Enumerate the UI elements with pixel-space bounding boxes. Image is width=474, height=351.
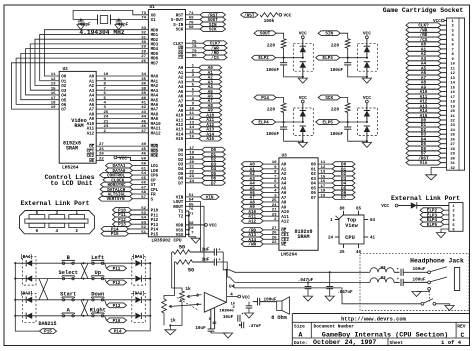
svg-text:MD6: MD6: [151, 58, 159, 62]
socket inner divider: [458, 18, 460, 170]
wire X1 net: [111, 19, 149, 21]
svg-text:SCK: SCK: [325, 96, 333, 101]
wire diode to rail: [142, 315, 150, 317]
svg-text:LH5264: LH5264: [281, 252, 298, 258]
wire MD6: [16, 58, 148, 104]
svg-text:A10: A10: [87, 123, 95, 127]
wire amp out: [225, 270, 227, 303]
svg-text:Start: Start: [60, 291, 76, 297]
svg-text:39: 39: [141, 92, 146, 96]
svg-text:61: 61: [141, 167, 146, 171]
svg-text:A5: A5: [281, 187, 287, 191]
svg-text:70: 70: [189, 21, 194, 25]
svg-text:P13: P13: [151, 224, 159, 228]
svg-text:SRAM: SRAM: [297, 234, 309, 240]
net flag CLOCK: [103, 177, 133, 182]
net flag DATALCH: [100, 187, 133, 192]
wire X0 net: [73, 10, 148, 19]
net flag SIN: [318, 31, 340, 36]
VCC: [444, 20, 446, 22]
svg-text:O1: O1: [311, 168, 317, 172]
svg-text:VSS: VSS: [176, 229, 184, 233]
net flag A3: [199, 79, 222, 84]
svg-text:54: 54: [141, 217, 146, 221]
svg-text:[DA3]: [DA3]: [20, 291, 33, 296]
wire: [276, 98, 284, 104]
wire: [276, 33, 284, 39]
svg-text:A5: A5: [89, 99, 95, 103]
svg-text:Right: Right: [90, 307, 106, 313]
svg-text:A11: A11: [87, 128, 95, 132]
svg-text:P14: P14: [114, 329, 122, 334]
wire to ground: [431, 167, 446, 174]
net flag ELP2: [252, 55, 276, 60]
net flag D2: [202, 157, 226, 162]
net flag ELP5: [420, 222, 444, 227]
svg-text:22: 22: [272, 241, 277, 245]
svg-text:P15: P15: [111, 232, 119, 237]
wire crossover: [81, 263, 88, 278]
svg-text:MA4: MA4: [151, 95, 159, 99]
dashed link: [429, 291, 431, 302]
svg-text:A5: A5: [178, 91, 184, 95]
ground: [362, 78, 371, 83]
svg-text:A12: A12: [281, 220, 289, 224]
svg-text:MD2: MD2: [151, 39, 159, 43]
svg-text:FR: FR: [151, 194, 157, 198]
svg-text:14: 14: [189, 126, 194, 130]
svg-text:External Link Port: External Link Port: [20, 200, 89, 207]
svg-text:35: 35: [141, 78, 146, 82]
svg-text:80: 80: [192, 55, 197, 59]
svg-text:O2: O2: [61, 85, 67, 89]
net flag D1: [202, 152, 226, 157]
svg-text:50: 50: [141, 158, 146, 162]
svg-text:A6: A6: [178, 96, 184, 100]
net flag CONTROL: [100, 173, 133, 178]
wire to ground rail: [348, 129, 367, 141]
svg-text:S-IN: S-IN: [173, 24, 184, 28]
connector body: [449, 203, 463, 232]
socket body: [447, 18, 465, 170]
svg-text:SIN: SIN: [325, 32, 333, 37]
svg-text:A0: A0: [281, 164, 287, 168]
net flag D3: [202, 161, 226, 166]
wire P15: [129, 233, 149, 235]
svg-text:P11: P11: [151, 214, 159, 218]
speaker LS1 8 Ohm: [260, 301, 277, 303]
svg-text:A0: A0: [178, 67, 184, 71]
capacitor 100uF (right ch): [394, 281, 400, 283]
ground: [77, 25, 85, 30]
net flag P10: [113, 208, 132, 213]
net flag A7: [199, 98, 222, 103]
svg-text:46: 46: [141, 125, 146, 129]
svg-text:A3: A3: [89, 90, 95, 94]
net flag P11: [113, 212, 132, 217]
svg-text:42: 42: [141, 106, 146, 110]
svg-text:A2: A2: [178, 77, 184, 81]
svg-text:15: 15: [450, 86, 455, 90]
svg-text:A10: A10: [176, 115, 184, 119]
wire: [283, 113, 285, 123]
wire to diode node: [348, 121, 367, 123]
svg-text:67: 67: [141, 186, 146, 190]
svg-text:11: 11: [51, 73, 56, 77]
svg-text:/CS: /CS: [211, 56, 219, 61]
diode DA4b: [26, 275, 32, 281]
svg-text:VDD: VDD: [176, 225, 184, 229]
svg-text:A12: A12: [87, 132, 95, 136]
net flag D6: [202, 176, 226, 181]
svg-text:15: 15: [189, 131, 194, 135]
net flag A6: [199, 94, 222, 99]
net flag P13: [113, 222, 132, 227]
svg-text:10: 10: [189, 107, 194, 111]
wire P12: [132, 218, 149, 220]
svg-text:A8: A8: [178, 105, 184, 109]
svg-text:76: 76: [189, 208, 194, 212]
ground: [191, 238, 200, 243]
svg-text:CPU: CPU: [345, 235, 355, 241]
svg-text:S-OUT: S-OUT: [171, 19, 184, 23]
svg-text:20: 20: [189, 161, 194, 165]
net flag A2: [406, 51, 441, 56]
svg-text:31: 31: [450, 162, 455, 166]
svg-text:A15: A15: [176, 138, 184, 142]
capacitor 1uF (left): [213, 248, 215, 255]
svg-text:D3: D3: [178, 163, 184, 167]
svg-text:VCC: VCC: [299, 31, 307, 37]
svg-text:17: 17: [189, 147, 194, 151]
svg-text:P11: P11: [113, 267, 121, 272]
svg-text:A6: A6: [89, 104, 95, 108]
wire CE2 stub: [96, 160, 104, 162]
svg-text:MD3: MD3: [151, 43, 159, 47]
svg-text:25: 25: [339, 251, 345, 255]
svg-text:ST: ST: [151, 184, 157, 188]
svg-text:19: 19: [450, 105, 455, 109]
svg-text:19: 19: [321, 194, 326, 198]
svg-text:71: 71: [189, 12, 194, 16]
svg-text:REV: REV: [457, 323, 465, 329]
svg-text:View: View: [345, 223, 358, 229]
svg-text:ELP2: ELP2: [258, 56, 269, 61]
VCC: [279, 13, 282, 16]
svg-text:47: 47: [141, 130, 146, 134]
net flag A5: [199, 89, 222, 94]
net flag A1: [241, 166, 263, 171]
dashed enclosure: [360, 253, 469, 310]
wire button row: [15, 262, 135, 264]
net flag P15: [40, 329, 57, 334]
U1 address net flags A0-A15: [186, 67, 199, 69]
net flag A14: [406, 108, 441, 113]
net flag A1: [406, 47, 441, 52]
net flag D7: [406, 151, 441, 156]
svg-text:16: 16: [321, 180, 326, 184]
net flag ELP3: [420, 213, 444, 218]
net flag /WR: [406, 28, 441, 33]
net flag A11: [199, 117, 222, 122]
net flag DATA1: [106, 163, 133, 168]
jack body: [454, 268, 459, 291]
svg-text:220: 220: [331, 42, 340, 48]
wire right channel: [217, 262, 370, 282]
svg-text:11: 11: [189, 112, 194, 116]
net flag A4: [241, 181, 263, 186]
wire crossover: [81, 263, 88, 278]
svg-text:P14: P14: [261, 96, 269, 101]
jack contacts: [428, 271, 431, 274]
svg-text:CP: CP: [151, 179, 157, 183]
net flag /WR: [203, 46, 227, 51]
svg-text:100nF: 100nF: [330, 132, 344, 137]
svg-text:O1: O1: [61, 80, 67, 84]
net flag /RD: [203, 50, 227, 55]
svg-text:51: 51: [141, 231, 146, 235]
net flag /CS: [406, 37, 441, 42]
svg-text:36: 36: [141, 83, 146, 87]
svg-text:X1: X1: [151, 19, 157, 23]
svg-text:34: 34: [141, 73, 146, 77]
wire: [340, 98, 348, 104]
diode DA1a: [135, 260, 141, 266]
svg-text:27: 27: [450, 143, 455, 147]
diode DA2b: [135, 313, 141, 319]
svg-text:Game Cartridge Socket: Game Cartridge Socket: [383, 7, 464, 14]
svg-text:23: 23: [189, 175, 194, 179]
svg-text:Left: Left: [91, 255, 104, 261]
ground: [412, 292, 421, 297]
wire P14: [129, 228, 149, 230]
svg-text:.047uF: .047uF: [298, 278, 314, 283]
net flag /RD: [406, 32, 441, 37]
resistor 220: [345, 39, 350, 49]
wire: [283, 48, 285, 58]
connector slot bar: [25, 219, 88, 223]
net flag A10: [406, 89, 441, 94]
net flag D3: [332, 176, 355, 181]
diode from node: [300, 62, 306, 68]
svg-text:A11: A11: [281, 216, 289, 220]
svg-text:58: 58: [189, 222, 194, 226]
svg-text:VERTSYN: VERTSYN: [106, 197, 124, 202]
svg-text:16: 16: [450, 91, 455, 95]
svg-text:U1: U1: [150, 5, 156, 10]
diode DA4a: [26, 260, 32, 266]
svg-text:64: 64: [141, 172, 146, 176]
pot grounds: [170, 302, 182, 325]
svg-text:A2: A2: [89, 85, 95, 89]
svg-text:MA1: MA1: [151, 80, 159, 84]
svg-text:MA9: MA9: [151, 118, 159, 122]
svg-text:VIN: VIN: [206, 195, 214, 200]
wire pin4: [227, 296, 238, 298]
svg-text:P13: P13: [113, 304, 121, 309]
resistor 220: [281, 103, 286, 113]
svg-text:23: 23: [104, 125, 109, 129]
ground: [298, 78, 307, 83]
svg-text:DAN215: DAN215: [38, 321, 56, 327]
svg-text:SRAM: SRAM: [66, 145, 78, 151]
svg-text:63: 63: [141, 212, 146, 216]
svg-text:D1: D1: [178, 154, 184, 158]
net flag ELP4: [252, 120, 276, 125]
net flag ALTSIGL: [101, 192, 133, 197]
net flag A15: [406, 113, 441, 118]
svg-text:External Link Port: External Link Port: [391, 195, 460, 202]
svg-text:220: 220: [267, 42, 276, 48]
diode from node: [364, 126, 370, 132]
switch Left: [92, 262, 94, 264]
SRAM U2 (video RAM LH5264): [59, 71, 96, 163]
wire: [347, 58, 349, 63]
net flag P14: [101, 227, 129, 232]
svg-text:A12: A12: [176, 124, 184, 128]
wiper arrow: [187, 295, 202, 297]
lower pin block 4: [49, 223, 65, 227]
svg-text:LH5264: LH5264: [62, 165, 79, 171]
wire: [283, 122, 285, 127]
svg-text:CS: CS: [178, 57, 184, 61]
svg-text:24: 24: [328, 236, 334, 240]
svg-text:77: 77: [189, 213, 194, 217]
svg-text:P12: P12: [151, 219, 159, 223]
switch Up: [92, 277, 94, 279]
net flag D7: [332, 195, 355, 200]
net flag A9: [241, 204, 263, 209]
wire: [283, 58, 285, 63]
svg-text:A7: A7: [281, 197, 287, 201]
svg-text:A12: A12: [248, 219, 256, 224]
upper pin block 1: [69, 215, 85, 219]
svg-text:A6: A6: [281, 192, 287, 196]
svg-text:/WR: /WR: [248, 243, 256, 248]
wire diode to rail: [142, 262, 150, 264]
wire diode to rail: [142, 278, 150, 280]
VCC: [301, 100, 304, 103]
svg-text:A8: A8: [89, 113, 95, 117]
diode to VCC: [300, 111, 306, 117]
svg-text:13: 13: [189, 121, 194, 125]
svg-text:VCC: VCC: [209, 224, 217, 229]
svg-text:24: 24: [272, 204, 277, 208]
ground: [223, 333, 232, 338]
wire MD7: [11, 63, 148, 109]
svg-text:O0: O0: [311, 164, 317, 168]
net flag /CS: [203, 55, 227, 60]
svg-text:18: 18: [321, 190, 326, 194]
diode DA3b: [26, 313, 32, 319]
ground: [362, 142, 371, 147]
wire P11: [132, 214, 149, 216]
svg-text:65: 65: [356, 207, 362, 211]
U1 serial net flags: [186, 14, 201, 16]
wire to pot1: [172, 252, 182, 291]
net flag A11: [241, 214, 263, 219]
wire button row: [15, 315, 135, 317]
svg-text:P15: P15: [151, 233, 159, 237]
net flag D4: [406, 137, 441, 142]
capacitor 100nF: [280, 126, 287, 128]
svg-text:17: 17: [450, 96, 455, 100]
net flag ELP4: [420, 217, 444, 222]
svg-text:X0: X0: [151, 14, 157, 18]
svg-text:25: 25: [272, 199, 277, 203]
svg-text:100nF: 100nF: [266, 132, 280, 137]
net flag A13: [241, 232, 263, 237]
VCC: [366, 36, 369, 39]
net flag D6: [406, 146, 441, 151]
resistor 50 (left channel): [172, 251, 174, 253]
svg-text:O6: O6: [61, 104, 67, 108]
wire P13: [132, 223, 149, 225]
wire ROUT: [186, 206, 205, 262]
net flag P10: [107, 318, 127, 323]
package outline with notch: [339, 215, 364, 244]
svg-text:16: 16: [51, 92, 56, 96]
svg-text:18: 18: [51, 101, 56, 105]
svg-text:ELP3: ELP3: [323, 56, 334, 61]
svg-text:4.194304 MHz: 4.194304 MHz: [79, 29, 125, 36]
diode from node: [364, 62, 370, 68]
net flag HORSYNC: [101, 182, 133, 187]
svg-text:A2: A2: [281, 173, 287, 177]
amplifier triangle: [204, 292, 226, 312]
net flag P15: [101, 231, 129, 236]
net flag A11: [406, 94, 441, 99]
svg-text:VIN: VIN: [176, 197, 184, 201]
net flag /RST: [200, 12, 226, 17]
svg-text:VCC: VCC: [381, 204, 389, 209]
speaker box: [277, 301, 282, 311]
svg-text:69: 69: [189, 17, 194, 21]
net flag A12: [199, 122, 222, 127]
svg-text:WE: WE: [281, 244, 287, 248]
svg-text:1k: 1k: [185, 287, 191, 292]
svg-text:68: 68: [189, 26, 194, 30]
svg-text:Vin: Vin: [420, 161, 428, 166]
svg-text:27: 27: [141, 55, 146, 59]
net flag Vin: [406, 160, 441, 165]
net flag A0: [199, 65, 222, 70]
svg-text:A1: A1: [281, 168, 287, 172]
VDD to VCC: [186, 224, 205, 226]
wire MD1: [40, 34, 149, 80]
net flag VIN: [186, 196, 201, 198]
U3 control flags: [263, 229, 279, 231]
svg-text:Date:: Date:: [294, 340, 308, 346]
svg-text:20: 20: [272, 236, 277, 240]
svg-text:A4: A4: [89, 95, 95, 99]
svg-text:O7: O7: [61, 109, 67, 113]
svg-text:17: 17: [51, 97, 56, 101]
net flag A6: [241, 190, 263, 195]
svg-text:64: 64: [370, 219, 376, 223]
svg-text:23: 23: [272, 213, 277, 217]
svg-text:10uF: 10uF: [195, 326, 206, 331]
svg-text:D4: D4: [178, 168, 184, 172]
svg-text:24: 24: [189, 180, 194, 184]
wire to diode node: [284, 57, 303, 59]
wire MD3: [30, 44, 148, 90]
svg-text:46: 46: [141, 153, 146, 157]
net flag CLK?: [203, 41, 227, 46]
net flag A12: [406, 99, 441, 104]
svg-text:Down: Down: [91, 291, 104, 297]
svg-text:O5: O5: [311, 187, 317, 191]
